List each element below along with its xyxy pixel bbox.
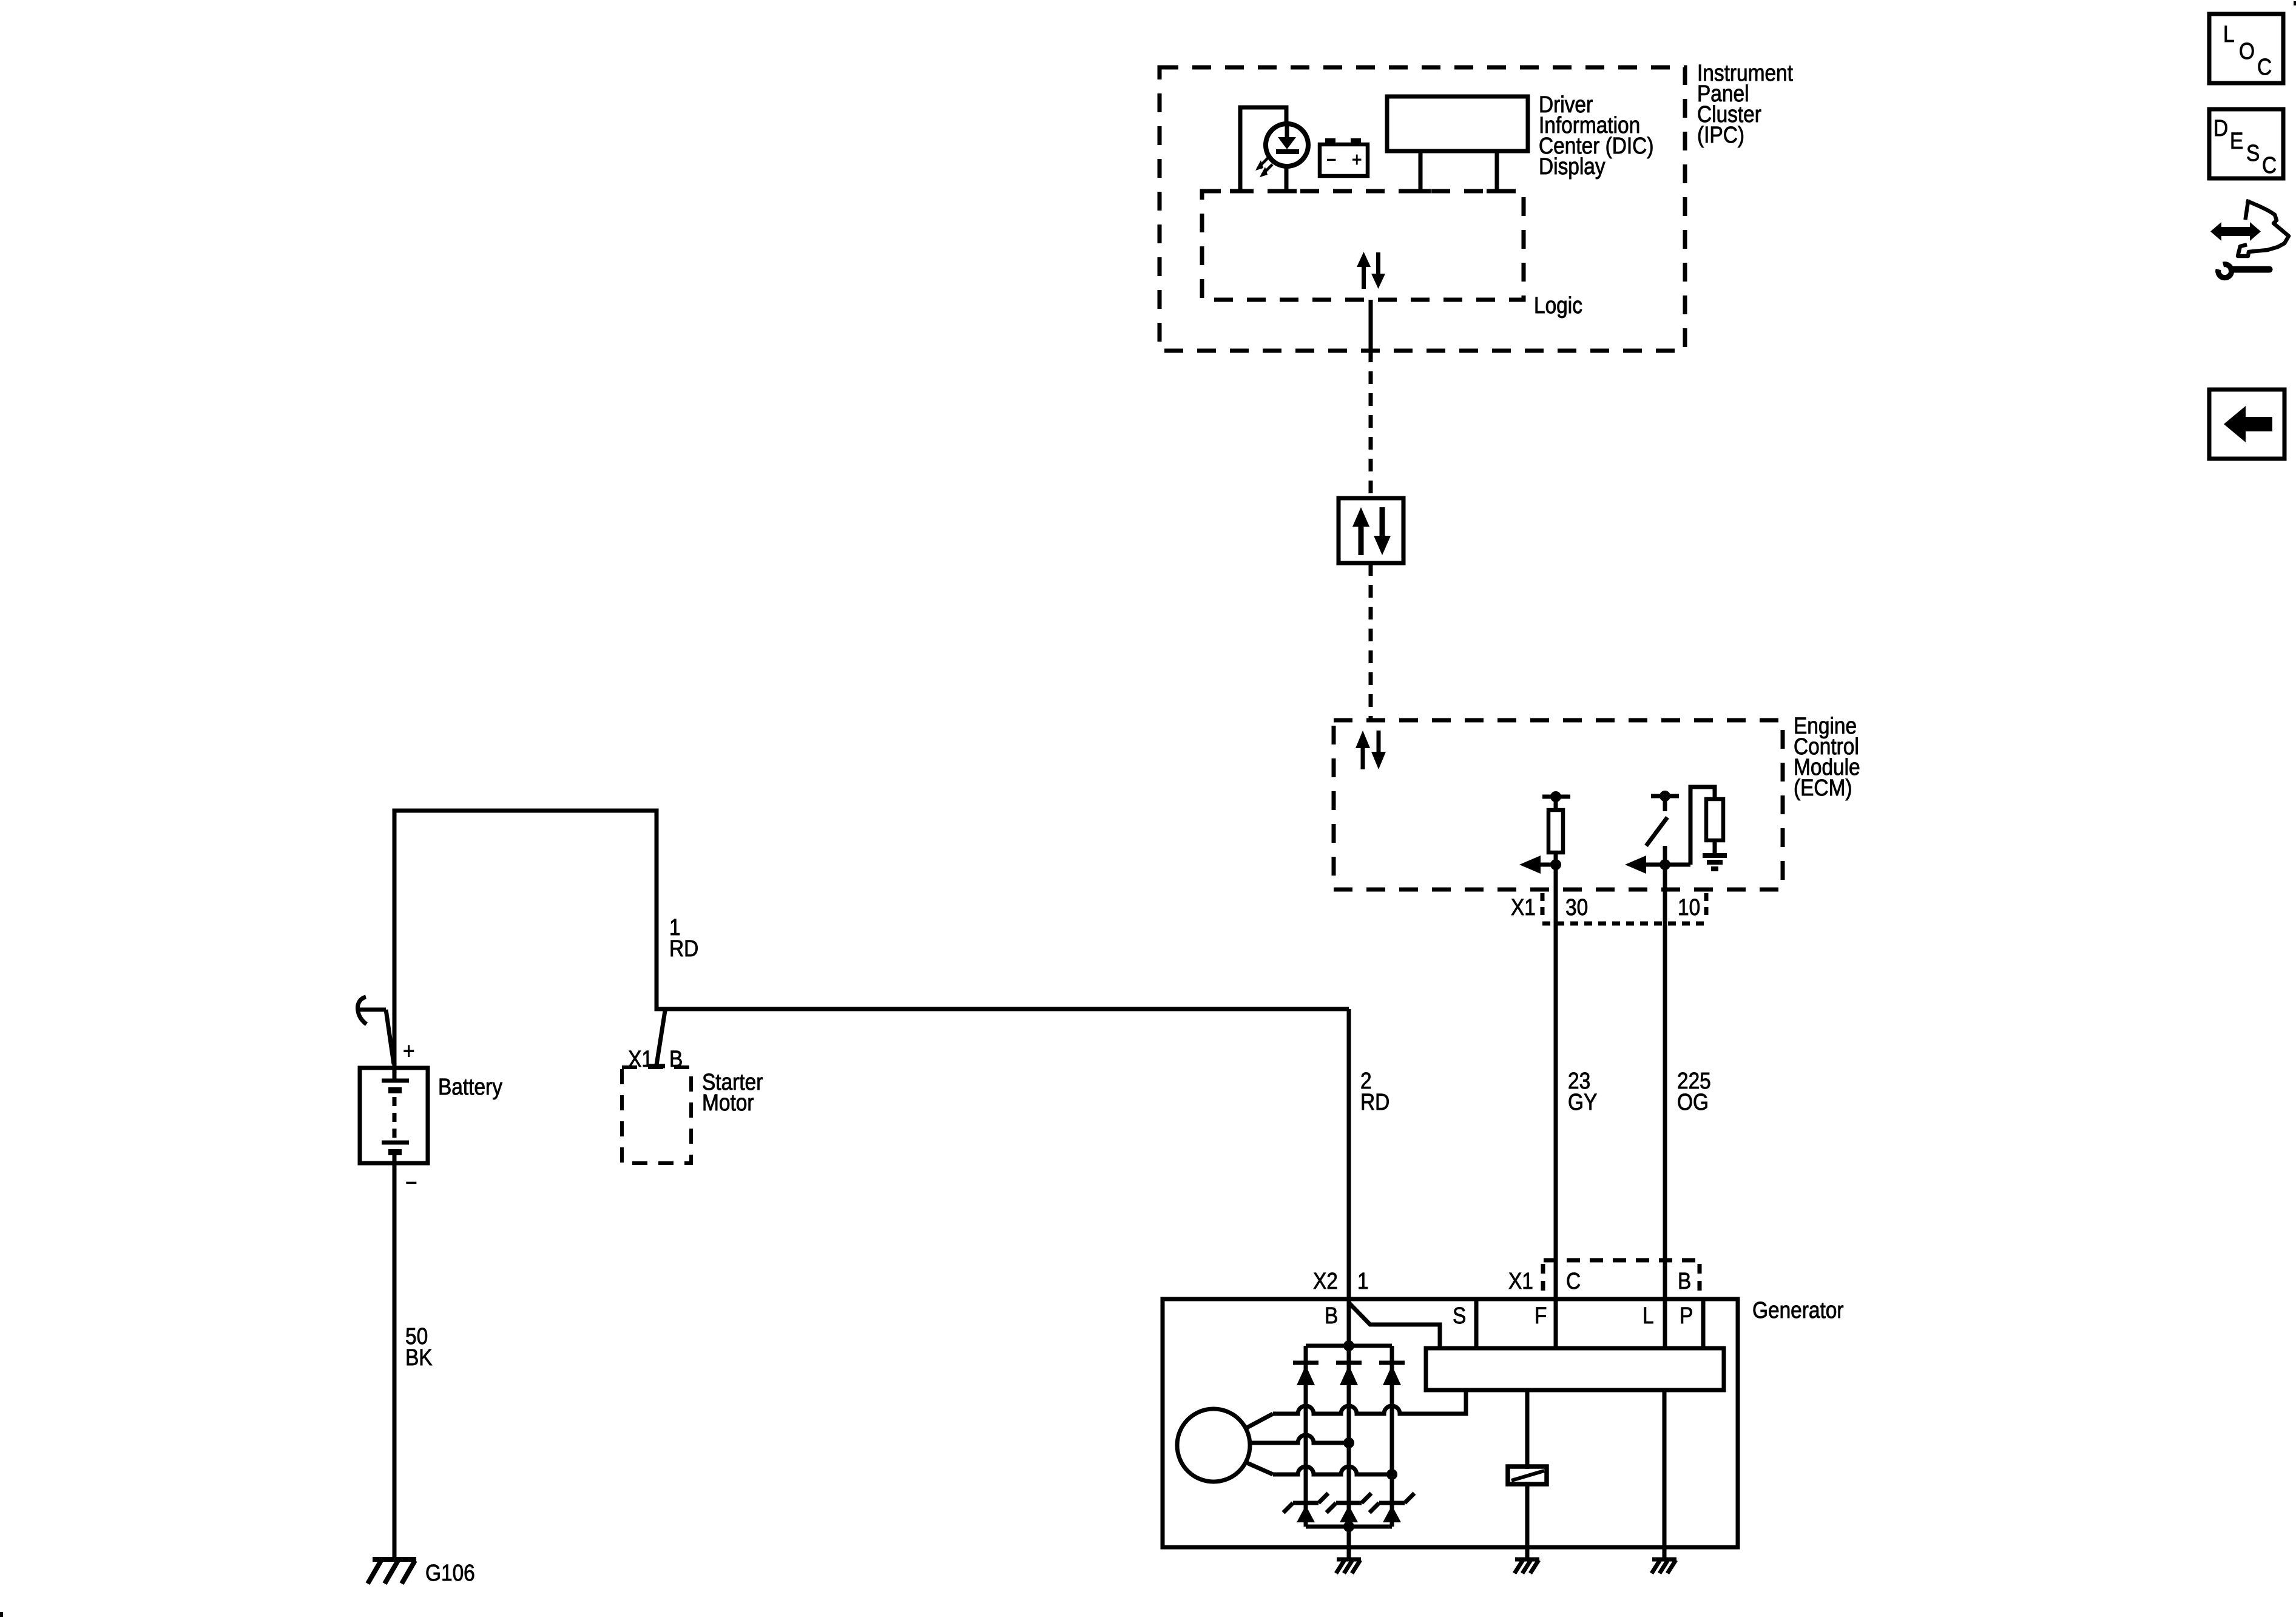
svg-text:B: B xyxy=(1678,1268,1691,1294)
svg-text:BK: BK xyxy=(405,1345,433,1370)
svg-text:E: E xyxy=(2230,128,2243,154)
svg-text:O: O xyxy=(2239,38,2255,64)
svg-text:Motor: Motor xyxy=(702,1090,754,1115)
svg-text:+: + xyxy=(1352,149,1362,170)
svg-text:Display: Display xyxy=(1539,154,1606,179)
svg-text:S: S xyxy=(1453,1303,1466,1328)
svg-text:OG: OG xyxy=(1677,1089,1709,1115)
svg-text:X1: X1 xyxy=(1508,1268,1533,1294)
svg-text:(ECM): (ECM) xyxy=(1794,775,1852,800)
svg-text:F: F xyxy=(1535,1303,1547,1328)
svg-text:B: B xyxy=(1325,1303,1338,1328)
svg-text:RD: RD xyxy=(669,936,698,961)
svg-text:X1: X1 xyxy=(1511,894,1536,920)
svg-text:L: L xyxy=(2223,21,2235,47)
svg-text:30: 30 xyxy=(1565,894,1588,920)
svg-text:Logic: Logic xyxy=(1534,292,1582,318)
svg-text:P: P xyxy=(1680,1303,1693,1328)
svg-text:L: L xyxy=(1643,1303,1654,1328)
svg-text:(IPC): (IPC) xyxy=(1697,122,1744,147)
svg-text:C: C xyxy=(2257,54,2272,79)
svg-text:−: − xyxy=(1326,149,1336,170)
svg-text:C: C xyxy=(2262,152,2277,178)
svg-text:C: C xyxy=(1566,1268,1581,1294)
svg-text:+: + xyxy=(403,1038,415,1064)
svg-text:1: 1 xyxy=(1357,1268,1369,1294)
svg-text:Generator: Generator xyxy=(1752,1297,1844,1323)
svg-text:X2: X2 xyxy=(1313,1268,1338,1294)
svg-text:D: D xyxy=(2213,115,2228,141)
svg-text:GY: GY xyxy=(1568,1089,1597,1115)
svg-text:−: − xyxy=(405,1170,417,1195)
svg-text:RD: RD xyxy=(1360,1089,1389,1115)
svg-text:G106: G106 xyxy=(425,1560,475,1585)
svg-text:S: S xyxy=(2246,140,2260,166)
svg-text:10: 10 xyxy=(1678,894,1700,920)
svg-text:Battery: Battery xyxy=(438,1074,502,1099)
